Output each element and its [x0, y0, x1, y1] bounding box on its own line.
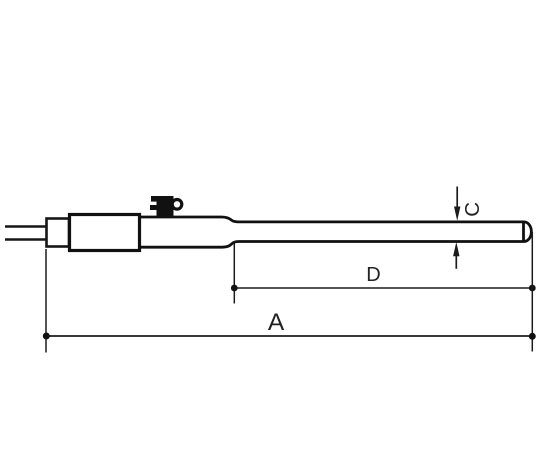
shaft top outline with taper: [139, 217, 524, 222]
node D-left: [231, 285, 238, 292]
clamp ring: [172, 200, 182, 210]
dimension C down arrow: [456, 187, 458, 210]
cable ferrule: [47, 219, 70, 247]
shaft bottom outline with taper: [139, 242, 524, 248]
clamp screw block: [157, 196, 174, 217]
dimension D line: [234, 287, 532, 289]
node D-right: [529, 285, 536, 292]
dimension A left extension line: [45, 249, 47, 353]
tube end vertical line: [522, 221, 525, 242]
tube rounded tip cap: [524, 222, 531, 242]
clamp top-left tab: [151, 196, 159, 202]
probe handle body: [70, 215, 140, 251]
dimension D extension line: [233, 244, 235, 304]
wire: [5, 225, 46, 228]
node A-right: [529, 333, 536, 340]
svg-text:C: C: [461, 202, 484, 217]
svg-text:D: D: [366, 264, 380, 286]
dimension C up arrow: [455, 253, 457, 269]
dimension A right extension line: [531, 232, 533, 352]
dimension A line: [46, 335, 532, 337]
svg-text:A: A: [268, 309, 285, 336]
wire: [5, 238, 46, 241]
node A-left: [43, 333, 50, 340]
clamp mid-left tab: [150, 205, 159, 210]
